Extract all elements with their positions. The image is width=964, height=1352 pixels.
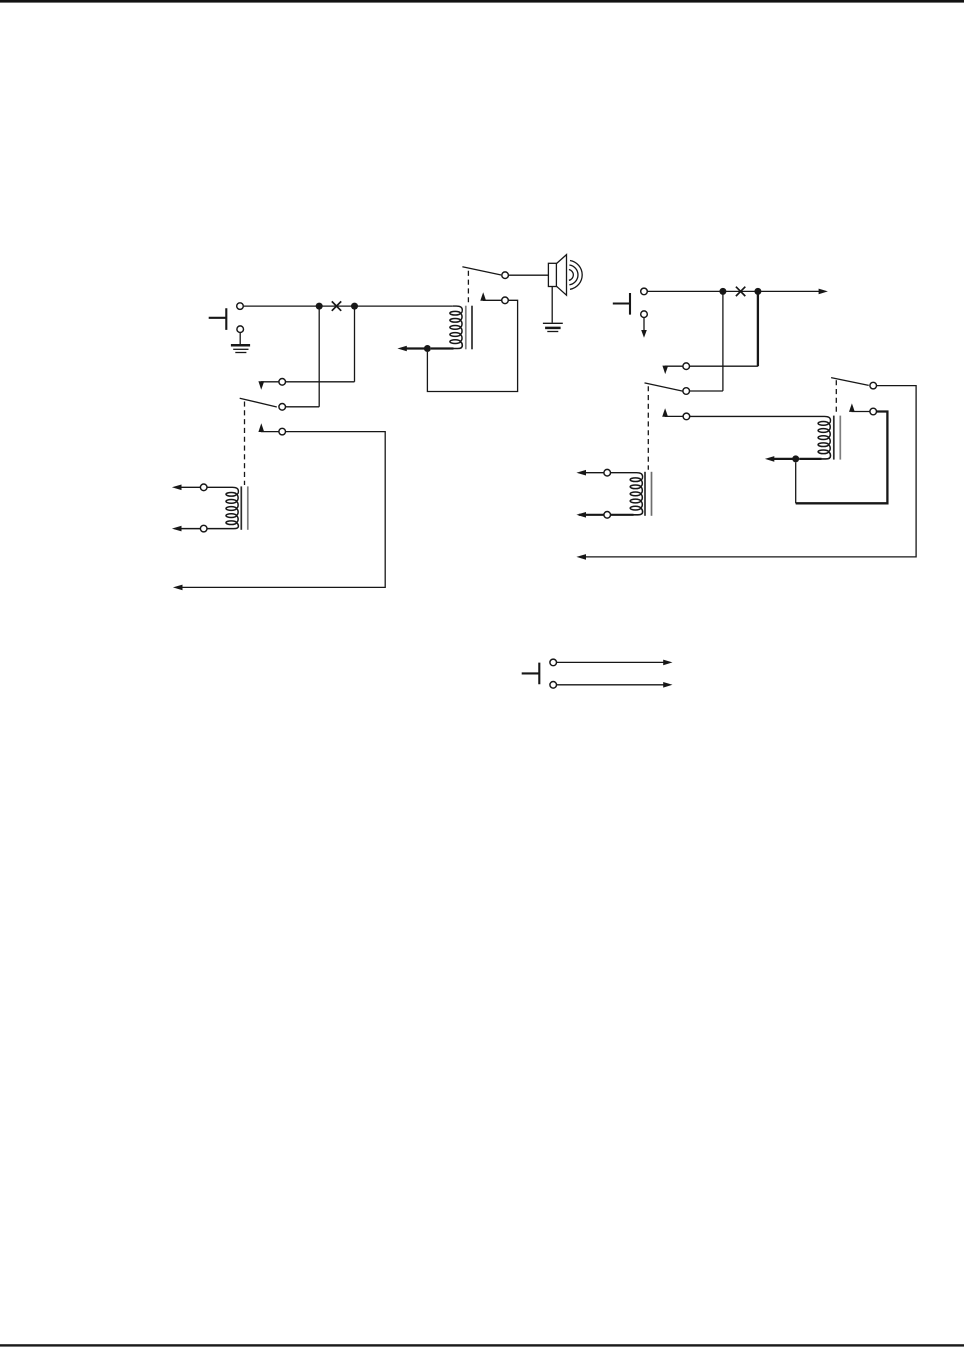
horn relay K2 core bar dark	[471, 306, 473, 350]
relay K1 movable arm	[240, 398, 277, 407]
terminal circle SW1 pin 2	[237, 326, 244, 333]
node junction J5	[754, 288, 761, 295]
bottom page rule	[0, 1344, 964, 1346]
bottom connector stub T3	[522, 663, 540, 685]
relay K4 coil windings	[818, 422, 830, 454]
wire: J5 bold drop to relay K3 NC contact	[757, 291, 759, 366]
horn speaker body	[548, 263, 556, 286]
harness arrow A12	[663, 682, 672, 688]
relay K4 NO terminal circle	[870, 408, 877, 415]
relay K5 coil bottom bold lead	[579, 508, 643, 515]
horn relay K2 coil entry	[453, 306, 463, 313]
wire: K4 NO bold return loop	[796, 412, 888, 504]
node junction J3 at K2 coil return	[424, 345, 431, 352]
node junction J6 at K4 coil return	[792, 455, 799, 462]
relay K5 coil windings	[630, 478, 642, 510]
relay K3 NC terminal circle	[683, 363, 690, 370]
relay K1 coil top terminal circle	[200, 484, 207, 491]
horn relay K2 NO terminal circle	[502, 297, 509, 304]
wire: J1 drop to SW1 common contact	[318, 306, 320, 407]
harness arrow A5	[819, 289, 828, 295]
ground G1	[231, 345, 250, 352]
relay K4 NO contact arrow	[849, 403, 870, 412]
terminal circle SW2 pin 1	[641, 288, 648, 295]
wire: J2 drop to SW1 NC contact	[354, 306, 356, 382]
wire: SW1 terminal to horn relay coil	[244, 305, 453, 307]
wire: horn to ground	[551, 287, 553, 323]
node junction J1	[316, 303, 323, 310]
relay K4 movable arm	[831, 378, 869, 386]
horn relay K2 core bar light	[465, 306, 467, 350]
wire: K3 NC contact to J5 drop	[690, 365, 758, 367]
node junction J2	[351, 303, 358, 310]
wire: K3 common to J4 drop	[690, 390, 723, 392]
harness arrow A9	[576, 470, 586, 476]
wire: K2 coil return loop to NO contact	[427, 300, 517, 391]
relay K4 arm terminal circle	[870, 382, 877, 389]
relay K3 NC contact arrow	[662, 366, 682, 375]
relay K3 actuation dashed link	[647, 386, 649, 470]
contact NC terminal circle	[279, 379, 286, 386]
relay K3 common terminal circle	[683, 388, 690, 395]
harness arrow A4	[397, 346, 406, 351]
contact NO terminal circle	[279, 428, 286, 435]
relay K1 coil bottom lead wire	[175, 523, 239, 529]
horn relay K2 arm terminal circle	[502, 272, 509, 279]
wire: NO contact loop to harness arrow	[177, 432, 386, 588]
terminal circle SW1 pin 1	[237, 303, 244, 310]
terminal circle SW2 pin 2	[641, 311, 648, 318]
relay K4 coil bottom bold lead	[772, 452, 831, 459]
relay K3 movable arm	[645, 383, 683, 391]
wire: J6 thin riser of return loop	[795, 462, 797, 503]
horn relay K2 coil windings	[450, 311, 462, 343]
relay K4 actuation dashed link	[835, 380, 837, 414]
crossover mark X1	[332, 301, 341, 310]
relay K5 coil top lead wire	[579, 473, 643, 480]
wire: SW2 pin 2 stub down	[643, 318, 645, 330]
bottom terminal circle B1	[550, 659, 557, 666]
horn speaker cone	[556, 255, 566, 296]
relay K1 common terminal circle	[279, 404, 286, 411]
relay K1 coil bottom terminal circle	[200, 525, 207, 532]
wire: J4 drop to relay K3 common contact	[722, 291, 724, 391]
wire: K3 NO contact to relay K4 coil	[690, 416, 831, 423]
wire: K2 arm to horn	[509, 274, 549, 276]
relay K1 coil windings	[226, 492, 238, 524]
harness arrow A10	[576, 512, 586, 518]
relay K1 coil top lead wire	[175, 487, 239, 494]
relay K4 core bar dark	[833, 416, 835, 460]
wire: common contact to J1 drop	[286, 406, 319, 408]
relay K4 core bar light	[839, 416, 841, 460]
relay K1 actuation dashed link	[244, 402, 246, 486]
wire: SW1 pin 2 to ground	[239, 333, 241, 344]
wire: K4 arm long return to harness arrow	[580, 386, 916, 557]
crossover mark X2	[736, 287, 745, 296]
bottom terminal circle B2	[550, 682, 557, 689]
relay K3 NO terminal circle	[683, 413, 690, 420]
horn switch SW1 battery-side stub	[209, 308, 227, 330]
horn relay K2 NO contact arrow	[480, 292, 501, 301]
contact NO arrow of relay K1 switch	[258, 423, 278, 432]
harness arrow A1	[173, 585, 183, 591]
ground G2	[543, 323, 563, 331]
relay K5 coil top terminal circle	[604, 469, 611, 476]
relay K5 coil bottom terminal circle	[604, 512, 611, 519]
horn sound arcs	[569, 261, 582, 290]
harness arrow A8	[576, 554, 586, 560]
relay K5 core bar dark	[644, 472, 646, 516]
harness arrow A2	[172, 485, 182, 491]
horn relay K2 coil bottom bold lead	[405, 342, 463, 349]
wire: B2 to arrow	[557, 684, 664, 686]
wire: NC contact to J2 drop	[286, 381, 355, 383]
horn relay K2 actuation dashed link	[467, 271, 469, 305]
contact NC arrow of relay K1 switch	[258, 381, 278, 390]
node junction J4	[719, 288, 726, 295]
top page rule	[0, 0, 964, 3]
relay K5 core bar light	[651, 472, 653, 516]
wire: B1 to arrow	[557, 661, 664, 663]
harness arrow A3	[172, 526, 182, 532]
horn switch SW2 battery-side stub	[613, 293, 630, 315]
harness arrow A7	[765, 456, 774, 462]
relay K1 core bar dark	[240, 486, 242, 529]
relay K1 core bar light	[247, 486, 249, 529]
harness arrow A6 down	[641, 330, 647, 338]
horn relay K2 movable arm	[462, 267, 501, 275]
wire: SW2 terminal feed line	[648, 290, 820, 292]
relay K3 NO contact arrow	[662, 408, 683, 417]
harness arrow A11	[663, 660, 672, 666]
